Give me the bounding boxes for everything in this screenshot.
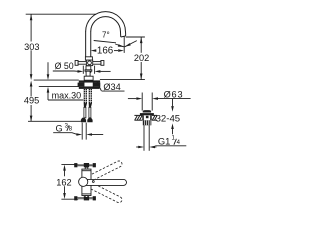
supply end fitting right bbox=[87, 118, 92, 123]
spout outlet walls bbox=[124, 31, 126, 36]
svg-text:G1: G1 bbox=[158, 135, 171, 146]
drain nut ribbed bbox=[143, 120, 152, 125]
plan bottom handle bbox=[75, 197, 96, 200]
svg-text:Ø34: Ø34 bbox=[103, 82, 120, 92]
base top band dark bbox=[79, 80, 100, 82]
svg-text:495: 495 bbox=[24, 95, 39, 105]
svg-text:Ø 50: Ø 50 bbox=[55, 61, 74, 71]
plan top hub dark bbox=[84, 163, 89, 167]
base center box bbox=[84, 82, 93, 87]
plan top neck bbox=[85, 167, 88, 169]
plan dashed spout down bbox=[82, 179, 123, 204]
svg-text:Ø63: Ø63 bbox=[164, 89, 184, 99]
deck bottom line bbox=[39, 85, 79, 87]
handle hub circle bbox=[88, 61, 92, 65]
label D34 underline bbox=[102, 90, 125, 92]
supply shank threaded rods bbox=[84, 89, 92, 104]
drain body walls bbox=[142, 115, 144, 120]
handle hub bbox=[86, 60, 92, 66]
drain body center block bbox=[146, 116, 149, 118]
plan dashed spout up bbox=[82, 160, 123, 185]
svg-text:4: 4 bbox=[177, 140, 181, 146]
svg-text:162: 162 bbox=[56, 177, 71, 187]
handle cross bar bbox=[75, 60, 104, 66]
plan top handle bbox=[75, 164, 96, 167]
drain flange bbox=[140, 113, 154, 115]
dimension 303/495 vertical line bbox=[30, 14, 32, 41]
deck top extension right bbox=[100, 79, 145, 81]
extension line outlet to 202 bbox=[126, 36, 145, 38]
svg-text:32-45: 32-45 bbox=[156, 114, 181, 125]
drain tailpipe walls bbox=[143, 125, 145, 151]
7 deg angle arrow left bbox=[115, 44, 124, 47]
spout arc inner bbox=[91, 17, 121, 32]
handle collar above bar bbox=[85, 57, 92, 60]
dimension G1 1/4 arrows bbox=[136, 146, 138, 148]
dimension 32-45 bbox=[172, 99, 174, 106]
D50 extension lines bbox=[82, 66, 84, 74]
svg-text:max.30: max.30 bbox=[52, 90, 82, 100]
dimension 166 arrows bbox=[91, 49, 97, 52]
label G1 1/4 underline bbox=[155, 145, 186, 147]
drain plug dome bbox=[143, 110, 151, 112]
G3/8 extension lines bbox=[81, 123, 83, 140]
svg-text:166: 166 bbox=[97, 46, 114, 57]
valve stem bbox=[86, 66, 91, 72]
label max.30 underline bbox=[48, 99, 83, 101]
svg-text:8: 8 bbox=[69, 127, 73, 133]
svg-text:G: G bbox=[56, 124, 63, 134]
body column bbox=[86, 71, 90, 76]
D63 extension lines bbox=[141, 93, 143, 111]
dimension 202 line bbox=[140, 37, 142, 53]
D50 dim arrows bbox=[78, 70, 84, 73]
supply end fitting left bbox=[81, 118, 86, 123]
plan pivot circle bbox=[79, 177, 88, 186]
extension line at outlet tip bbox=[123, 37, 125, 53]
supply thin tubes bbox=[84, 107, 86, 117]
dimension G3/8 line with arrows bbox=[53, 133, 77, 135]
label D34 leader bbox=[97, 82, 101, 91]
max.30 upper arrow bbox=[47, 62, 49, 74]
7 deg angle arrow right bbox=[125, 41, 137, 47]
base escutcheon bbox=[84, 76, 93, 80]
spout arc outer bbox=[86, 12, 126, 32]
7 deg reference line bbox=[94, 41, 116, 43]
dimension 162 line bbox=[64, 170, 66, 176]
plan bottom neck bbox=[85, 196, 88, 198]
wire top extension line from spout apex bbox=[26, 13, 96, 15]
supply end line bbox=[28, 120, 81, 122]
stem collar step bbox=[85, 70, 92, 71]
deck top line left bbox=[34, 79, 79, 81]
plan body bbox=[82, 169, 91, 195]
svg-text:303: 303 bbox=[24, 42, 39, 52]
deck hatch right bbox=[152, 115, 157, 120]
base wings dark bbox=[78, 83, 84, 87]
base bottom band dark bbox=[79, 87, 100, 89]
dimension 162 extension lines bbox=[61, 163, 78, 165]
svg-text:7°: 7° bbox=[102, 31, 110, 40]
plan solid spout arm bbox=[84, 179, 127, 185]
plan arm screw dot bbox=[92, 181, 94, 183]
deck hatch left bbox=[134, 115, 142, 120]
svg-text:202: 202 bbox=[134, 53, 149, 63]
D63 dimension line bbox=[128, 98, 136, 100]
spout riser tube walls bbox=[85, 31, 87, 57]
spout outlet face 7deg bbox=[121, 36, 126, 37]
label D50 underline leader bbox=[53, 70, 80, 72]
max.30 lower arrow bbox=[47, 93, 49, 101]
plan bottom hub dark bbox=[84, 196, 89, 200]
svg-text:1: 1 bbox=[172, 135, 176, 141]
supply rod tapers bbox=[84, 103, 87, 107]
